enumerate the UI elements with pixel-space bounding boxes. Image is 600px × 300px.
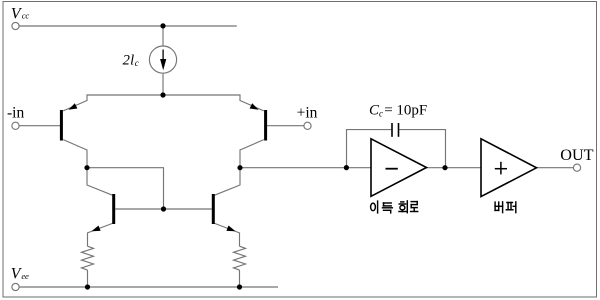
svg-text:cc: cc [22, 11, 30, 21]
svg-text:OUT: OUT [560, 146, 593, 164]
svg-text:l: l [130, 52, 134, 68]
svg-text:= 10pF: = 10pF [384, 103, 427, 119]
svg-text:2: 2 [123, 52, 130, 68]
svg-text:c: c [135, 58, 139, 68]
svg-text:-in: -in [7, 105, 24, 122]
svg-text:+in: +in [297, 105, 318, 122]
svg-text:ee: ee [21, 271, 29, 281]
svg-text:c: c [379, 109, 383, 119]
